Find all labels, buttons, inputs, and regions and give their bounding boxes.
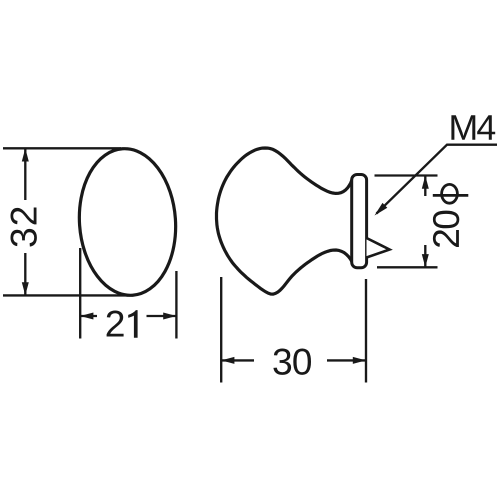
- arrowhead right 30: [353, 357, 366, 364]
- dimension text 20phi: [433, 211, 459, 247]
- dimension line 30 left segment: [221, 359, 254, 361]
- dimension line 32 upper segment: [24, 148, 26, 200]
- extension line right of 21 dim: [175, 271, 177, 339]
- dimension line 20phi upper segment: [424, 176, 426, 197]
- extension line left of 21 dim: [79, 248, 81, 339]
- phi symbol circle: [442, 184, 458, 203]
- arrowhead left 30: [221, 357, 234, 364]
- arrowhead right 21: [163, 313, 176, 320]
- arrowhead up 20phi: [422, 176, 429, 189]
- dimension text 32: [11, 208, 37, 247]
- arrowhead down 20phi: [422, 254, 429, 267]
- extension line top of 32 dim: [3, 147, 121, 149]
- dimension line 21 left segment: [80, 315, 97, 317]
- extension line bottom of 20phi dim: [377, 266, 438, 268]
- side view knob silhouette: [217, 148, 354, 294]
- M4 leader arrowhead: [375, 203, 388, 216]
- screw tip triangle: [367, 238, 390, 258]
- arrowhead up 32: [22, 148, 29, 161]
- dimension line 30 right segment: [327, 359, 366, 361]
- arrowhead down 32: [22, 282, 29, 295]
- dimension line 20phi lower segment: [424, 245, 426, 267]
- extension line top of 20phi dim: [375, 174, 438, 176]
- dimension line 32 lower segment: [24, 253, 26, 295]
- dimension text 30: [273, 349, 311, 375]
- M4 label: [451, 115, 495, 140]
- side view base plate: [352, 175, 367, 268]
- extension line bottom of 32 dim: [3, 294, 128, 296]
- phi symbol stem: [433, 194, 469, 197]
- extension line left of 30 dim: [220, 277, 222, 383]
- dimension line 21 right segment: [147, 315, 177, 317]
- extension line right of 30 dim: [365, 279, 367, 383]
- dimension text 21: [107, 310, 138, 338]
- M4 leader line: [377, 145, 498, 214]
- arrowhead left 21: [80, 313, 93, 320]
- front view knob outline (oval): [74, 145, 180, 298]
